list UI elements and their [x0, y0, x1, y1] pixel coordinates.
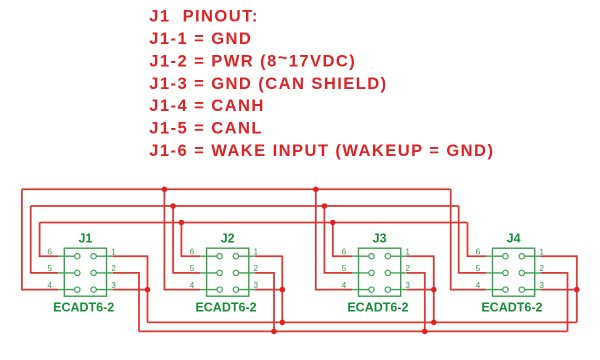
svg-text:6: 6	[342, 246, 347, 256]
junction PWR bus / J2 vertical	[271, 329, 277, 335]
svg-text:J1-3 = GND (CAN SHIELD): J1-3 = GND (CAN SHIELD)	[149, 74, 387, 93]
wire J1 pin 1 to GND bus	[113, 256, 148, 322]
junction PWR bus / J3 vertical	[422, 329, 428, 335]
wire WAKE drop to J4 pin 6	[468, 223, 487, 257]
junction J2 pin 3 / GND vertical	[280, 287, 286, 293]
wire WAKE drop to J3 pin 6	[333, 223, 352, 257]
J4 pin 3 circle	[519, 287, 524, 292]
J3 pin 3 circle	[385, 287, 390, 292]
wire CANL drop to J4 pin 5	[459, 206, 487, 273]
svg-text:1: 1	[405, 246, 410, 256]
J2 pin 5 circle	[217, 270, 222, 275]
svg-text:1: 1	[254, 246, 259, 256]
wire J4 pin 2 to PWR bus	[541, 273, 568, 332]
svg-text:ECADT6-2: ECADT6-2	[347, 301, 408, 315]
junction J3 pin 3 / GND vertical	[431, 287, 437, 293]
svg-text:2: 2	[405, 263, 410, 273]
wire CANH drop to J2 pin 4	[164, 189, 200, 289]
J3 pin 1 stub	[388, 255, 407, 257]
J1 pin 2 circle	[91, 270, 96, 275]
junction GND bus / J2 vertical	[280, 320, 286, 326]
svg-text:5: 5	[190, 263, 195, 273]
J1 pin 4 circle	[75, 287, 80, 292]
J4 pin 2 circle	[519, 270, 524, 275]
J2 pin 4 circle	[217, 287, 222, 292]
J2 pin 4 stub	[200, 289, 219, 291]
J1 pin 6 circle	[75, 254, 80, 259]
J3 pin 5 circle	[369, 270, 374, 275]
wire CANH drop to J3 pin 4	[316, 189, 352, 289]
wire J3 pin 1 to GND bus	[407, 256, 434, 322]
J3 pin 6 stub	[352, 255, 371, 257]
J3 pin 5 stub	[352, 272, 371, 274]
J3 body outline	[359, 248, 401, 296]
J3 pin 6 circle	[369, 254, 374, 259]
J1 pin 5 circle	[75, 270, 80, 275]
J4 pin 5 stub	[486, 272, 505, 274]
J3 pin 4 stub	[352, 289, 371, 291]
wire WAKE drop to J2 pin 6	[181, 223, 200, 257]
junction WAKE bus / J3 drop	[330, 220, 336, 226]
svg-text:4: 4	[476, 280, 481, 290]
connector J3 (ECADT6-2)	[342, 232, 411, 315]
wire PWR bus (pin 2 net, bottom)	[139, 330, 568, 332]
wire GND bus (pins 1/3 net, bottom)	[148, 321, 577, 323]
J1 pin 3 circle	[91, 287, 96, 292]
svg-text:4: 4	[47, 280, 52, 290]
J3 pin 4 circle	[369, 287, 374, 292]
wire J1 pin 2 to PWR bus	[113, 273, 139, 332]
svg-text:3: 3	[405, 280, 410, 290]
J2 pin 5 stub	[200, 272, 219, 274]
wire WAKE bus (pin 6 net, top)	[40, 222, 468, 224]
J1 pin 3 stub	[94, 289, 113, 291]
wire J3 pin 2 to PWR bus	[407, 273, 425, 332]
wire J2 pin 3 to GND vertical	[255, 289, 282, 291]
J2 pin 3 stub	[236, 289, 255, 291]
wire J2 pin 1 to GND bus	[255, 256, 282, 322]
J1 pinout legend text	[149, 7, 494, 161]
svg-text:3: 3	[254, 280, 259, 290]
svg-text:J2: J2	[221, 232, 235, 246]
svg-text:5: 5	[476, 263, 481, 273]
wire J3 pin 3 to GND vertical	[407, 289, 434, 291]
wire CANL bus (pin 5 net, top)	[31, 205, 459, 207]
wire CANL drop to J3 pin 5	[324, 206, 352, 273]
wire CANL drop to J1 pin 5	[31, 206, 58, 273]
junction CANH bus / J2 drop	[162, 187, 168, 193]
wire J1 pin 3 to GND vertical	[113, 289, 148, 291]
svg-text:6: 6	[47, 246, 52, 256]
wire CANH drop to J1 pin 4	[22, 189, 58, 289]
wire J2 pin 2 to PWR bus	[255, 273, 274, 332]
svg-text:5: 5	[342, 263, 347, 273]
J2 pin 1 stub	[236, 255, 255, 257]
J4 body outline	[493, 248, 535, 296]
J1 pin 1 stub	[94, 255, 113, 257]
connector J4 (ECADT6-2)	[476, 232, 545, 315]
svg-text:6: 6	[190, 246, 195, 256]
J2 pin 6 stub	[200, 255, 219, 257]
junction J1 pin 3 / GND vertical	[145, 287, 151, 293]
wire CANH drop to J4 pin 4	[451, 189, 487, 289]
svg-text:3: 3	[111, 280, 116, 290]
J4 pin 3 stub	[522, 289, 541, 291]
wire J4 pin 3 to GND vertical	[541, 289, 577, 291]
svg-text:ECADT6-2: ECADT6-2	[481, 301, 542, 315]
J4 pin 5 circle	[503, 270, 508, 275]
svg-text:J1 PINOUT:: J1 PINOUT:	[149, 7, 258, 26]
svg-text:J1-5 = CANL: J1-5 = CANL	[149, 119, 263, 138]
svg-text:J1-6 = WAKE INPUT (WAKEUP = GN: J1-6 = WAKE INPUT (WAKEUP = GND)	[149, 141, 494, 160]
junction WAKE bus / J2 drop	[179, 220, 185, 226]
J1 pin 5 stub	[58, 272, 77, 274]
svg-text:4: 4	[190, 280, 195, 290]
svg-text:1: 1	[111, 246, 116, 256]
junction GND bus / J3 vertical	[431, 320, 437, 326]
J1 pin 1 circle	[91, 254, 96, 259]
connector J1 (ECADT6-2)	[47, 232, 116, 315]
svg-text:6: 6	[476, 246, 481, 256]
J1 pin 6 stub	[58, 255, 77, 257]
svg-text:2: 2	[111, 263, 116, 273]
svg-text:J1-1 = GND: J1-1 = GND	[149, 29, 252, 48]
J3 pin 3 stub	[388, 289, 407, 291]
junction J4 pin 3 / GND vertical	[574, 287, 580, 293]
svg-text:J1-2 = PWR (8~17VDC): J1-2 = PWR (8~17VDC)	[149, 48, 356, 70]
wire CANH bus (pin 4 net, top)	[22, 188, 451, 190]
J4 pin 2 stub	[522, 272, 541, 274]
wire J4 pin 1 to GND bus	[541, 256, 577, 322]
svg-text:ECADT6-2: ECADT6-2	[53, 301, 114, 315]
svg-text:ECADT6-2: ECADT6-2	[195, 301, 256, 315]
J3 pin 2 circle	[385, 270, 390, 275]
J3 pin 1 circle	[385, 254, 390, 259]
J1 pin 2 stub	[94, 272, 113, 274]
junction CANL bus / J3 drop	[322, 203, 328, 209]
svg-text:1: 1	[539, 246, 544, 256]
junction CANH bus / J3 drop	[313, 187, 319, 193]
J4 pin 1 stub	[522, 255, 541, 257]
J4 pin 6 circle	[503, 254, 508, 259]
J3 pin 2 stub	[388, 272, 407, 274]
J2 body outline	[207, 248, 249, 296]
svg-text:J3: J3	[373, 232, 387, 246]
J1 pin 4 stub	[58, 289, 77, 291]
J2 pin 6 circle	[217, 254, 222, 259]
J4 pin 4 circle	[503, 287, 508, 292]
J2 pin 1 circle	[233, 254, 238, 259]
J1 body outline	[64, 248, 106, 296]
svg-text:J1: J1	[78, 232, 92, 246]
svg-text:J4: J4	[507, 232, 521, 246]
J2 pin 2 circle	[233, 270, 238, 275]
svg-text:2: 2	[539, 263, 544, 273]
J4 pin 1 circle	[519, 254, 524, 259]
J4 pin 4 stub	[486, 289, 505, 291]
svg-text:5: 5	[47, 263, 52, 273]
J2 pin 3 circle	[233, 287, 238, 292]
J4 pin 6 stub	[486, 255, 505, 257]
svg-text:4: 4	[342, 280, 347, 290]
connector J2 (ECADT6-2)	[190, 232, 259, 315]
svg-text:2: 2	[254, 263, 259, 273]
wire CANL drop to J2 pin 5	[173, 206, 200, 273]
J2 pin 2 stub	[236, 272, 255, 274]
svg-text:J1-4 = CANH: J1-4 = CANH	[149, 96, 264, 115]
junction CANL bus / J2 drop	[170, 203, 176, 209]
wire WAKE drop to J1 pin 6	[40, 223, 58, 257]
svg-text:3: 3	[539, 280, 544, 290]
